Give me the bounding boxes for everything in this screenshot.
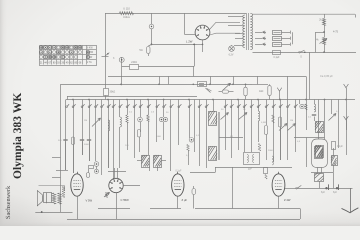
wire bottom rail y219	[67, 219, 300, 221]
oscillator box	[244, 153, 260, 165]
wire interrail v2	[168, 76, 170, 84]
transformer Tr1 core	[246, 13, 248, 50]
svg-text:U 110: U 110	[123, 6, 130, 10]
arrow to chassis x346 mid	[344, 116, 349, 120]
wire tube anode to transformer	[210, 22, 241, 29]
title Olympia 383 WK (rotated left margin)	[13, 93, 23, 179]
wire link y177	[52, 177, 61, 179]
svg-text:5 LW: 5 LW	[87, 57, 93, 59]
cap C1	[63, 139, 67, 141]
wire interrail v3	[193, 66, 195, 76]
comp above V1	[89, 166, 94, 169]
cap C8 electrolytic	[325, 187, 327, 189]
svg-text:8μF: 8μF	[333, 192, 338, 194]
potentiometer P1 on x324	[323, 38, 326, 45]
wire y137 link	[294, 137, 325, 139]
svg-text:240Ω: 240Ω	[131, 61, 137, 64]
band switch contacts row	[66, 106, 68, 108]
ground symbol	[342, 208, 359, 213]
speaker LS horn	[37, 191, 43, 206]
wire top mains rail	[105, 13, 246, 15]
bus switch rail y96.2	[67, 96, 197, 98]
svg-text:30kΩ: 30kΩ	[110, 91, 116, 94]
bus chassis rail y99.5	[66, 99, 355, 101]
oval R12	[264, 126, 267, 135]
varcap arrow h1	[279, 124, 287, 131]
resistor R4 oval	[269, 84, 271, 85]
wire drop x309 from mains rail	[309, 52, 311, 99]
cap C7 box	[332, 142, 336, 150]
coil near V4	[272, 156, 274, 165]
bus AVC rail y85	[61, 84, 253, 86]
speaker frame top	[39, 184, 65, 186]
wire link y170 left	[56, 170, 68, 172]
wire Tr1 primary tap 5	[234, 45, 243, 47]
oval R15 x280	[278, 117, 281, 127]
fuse Si on drop x151	[151, 13, 153, 24]
wire mid rail b	[150, 208, 181, 210]
svg-text:0,5M: 0,5M	[261, 122, 266, 124]
speaker transformer w1	[52, 193, 56, 204]
varres below V2	[105, 193, 108, 198]
zigzag R14 x273	[272, 115, 275, 123]
svg-text:2000: 2000	[268, 150, 274, 152]
wire drop x194	[194, 44, 196, 66]
varcap arrow r	[329, 114, 337, 121]
coil L3	[314, 104, 316, 112]
wire HT drop x324	[324, 14, 326, 18]
svg-text:5Ω: 5Ω	[139, 49, 142, 52]
wire to ground	[350, 188, 352, 212]
wire Tr1 primary tap 2	[228, 25, 243, 27]
wire link y158	[52, 157, 61, 159]
resistor R6 oval mid	[245, 84, 247, 87]
cap C9 electrolytic	[336, 187, 338, 189]
wire interrail v4	[210, 76, 212, 84]
resistor R1 oval (148,50)	[148, 44, 151, 46]
speaker magnet	[44, 193, 52, 203]
zig R13	[258, 144, 261, 152]
wire choke to field	[317, 168, 319, 174]
svg-text:Ca 0,05 μF: Ca 0,05 μF	[320, 74, 333, 78]
IF transformer IFT3 bottom	[315, 147, 323, 159]
heater winding row 3	[255, 44, 262, 46]
wire field to rail	[319, 181, 321, 188]
lamp La dial light	[229, 46, 235, 52]
wire Tr1 sec top to HT rail	[252, 13, 355, 15]
heater winding row 1	[255, 32, 262, 34]
varcap arrow g1	[221, 113, 229, 120]
choke taps	[311, 152, 313, 156]
wire V2 top	[114, 168, 116, 179]
svg-text:8μF: 8μF	[321, 192, 326, 194]
svg-text:6,3V: 6,3V	[229, 55, 234, 57]
coil L2	[258, 111, 260, 121]
svg-text:Urdox: Urdox	[123, 15, 131, 19]
wire left drop from top rail	[105, 13, 107, 99]
svg-text:1M: 1M	[290, 120, 293, 122]
wire rail y76	[108, 76, 306, 78]
wire Tr1 primary tap 3	[235, 33, 243, 35]
resistor R10 zig	[147, 115, 150, 122]
heater winding row 2	[255, 38, 262, 40]
tube V1 envelope	[71, 174, 83, 196]
wire interrail v1	[159, 76, 161, 84]
wire Tr1 primary tap 4	[235, 38, 243, 40]
wire mid rail c	[195, 208, 300, 210]
fuse Si symbol	[149, 24, 154, 29]
junction dots on chassis bus	[72, 99, 74, 101]
wire rail1 right stub	[252, 84, 268, 86]
left scan edge shading	[0, 0, 7, 226]
wire row y66	[122, 66, 195, 68]
wires vertical drops from chassis bus	[60, 100, 62, 213]
trimmer T1	[94, 162, 99, 167]
svg-text:μμF: μμF	[248, 168, 253, 171]
resistor R3 on x324	[323, 19, 326, 26]
band switch table S1	[40, 46, 97, 66]
svg-text:4-75: 4-75	[333, 31, 339, 34]
switch contact gap	[299, 51, 301, 53]
coil L1	[108, 120, 110, 131]
resistor R-Urdox (zigzag on top rail)	[120, 12, 134, 15]
wire V2 right	[123, 185, 140, 187]
cap C4	[87, 139, 91, 141]
wire heater row y44	[152, 44, 198, 46]
wire tube bottom drop	[202, 40, 204, 44]
coil L1b	[120, 117, 122, 127]
transformer Tr1 secondary winding	[250, 14, 252, 50]
wire x324 mid	[324, 26, 326, 38]
varcap arrow h2	[288, 124, 296, 131]
wire bracket y32	[316, 32, 325, 34]
choke capsule outline	[312, 139, 328, 168]
wire bracket drop x315	[315, 32, 317, 52]
wire into tube grid	[184, 34, 195, 36]
junction dots on AVC rail	[120, 83, 122, 85]
svg-text:L 2W: L 2W	[186, 40, 193, 44]
wire link y171 mid	[108, 171, 126, 173]
switch S2 on bottom rail	[273, 51, 281, 55]
tube V2 envelope	[109, 178, 123, 192]
wire mid rail a	[98, 208, 130, 210]
svg-text:1kΩ: 1kΩ	[259, 90, 264, 93]
svg-text:V 5W: V 5W	[86, 199, 93, 203]
IF transformer IFT2 top	[209, 112, 217, 126]
svg-text:6 KW: 6 KW	[87, 47, 93, 49]
cap C6 twin	[159, 117, 163, 121]
varcap arrow antenna	[92, 118, 101, 127]
svg-text:5000: 5000	[156, 136, 162, 138]
IFT1 wires	[137, 160, 142, 162]
svg-text:Z 4W: Z 4W	[284, 198, 291, 202]
wire HT rail y187	[298, 188, 353, 190]
arrow to chassis x346	[346, 88, 348, 100]
comp right of V3 oval	[192, 189, 196, 195]
trimmer+zig right	[300, 104, 304, 108]
zig R11	[187, 145, 190, 152]
field coil	[62, 187, 65, 198]
oval R9	[137, 130, 140, 138]
resistor R7 oval	[71, 137, 74, 145]
IFT2 core	[218, 112, 220, 160]
resistor R8 zig	[126, 115, 129, 123]
wire drop V4	[278, 196, 280, 208]
box component on rail1	[198, 82, 207, 87]
switch contact on x105	[102, 56, 109, 58]
wire interrail v5	[233, 76, 235, 84]
svg-text:0,1μF: 0,1μF	[274, 57, 281, 59]
comp right of V1	[87, 173, 90, 178]
wire x184 drop	[184, 13, 186, 34]
wire x324 to bottom rail	[324, 45, 326, 53]
wire V4 right out	[285, 188, 298, 190]
transformer Tr1 primary winding	[243, 15, 245, 48]
svg-text:C 55W: C 55W	[121, 198, 130, 202]
field winding hatched	[315, 174, 324, 182]
speaker transformer w2	[58, 193, 62, 204]
arrow symbol x279.5	[277, 88, 282, 92]
varcap arrow on rail1	[223, 83, 231, 90]
choke winding hatched	[316, 146, 324, 158]
speaker bottom wire	[35, 212, 72, 214]
title Sachsenwerk (rotated left margin)	[6, 186, 10, 219]
tube V6 L2W envelope	[195, 25, 210, 40]
junction dot	[151, 44, 153, 46]
zigzag below box	[206, 88, 211, 93]
IF transformer IFT3 top	[316, 122, 324, 133]
wire box mid vertical x287	[287, 76, 289, 99]
trimmer T3	[138, 117, 143, 122]
wire AF link y167	[215, 167, 292, 169]
wire drop V3	[177, 196, 179, 208]
wire mains bottom rail y52	[253, 52, 357, 54]
wire box left vertical x257	[257, 76, 259, 84]
wire filament vertical	[292, 32, 294, 44]
cap capsule on wire y91.6	[219, 91, 223, 93]
IF transformer IFT2 bottom	[209, 147, 217, 161]
wire osc link y137	[219, 137, 243, 139]
tube V4 envelope	[272, 174, 285, 196]
tube V3 envelope	[172, 174, 184, 196]
svg-text:0 MW: 0 MW	[87, 52, 94, 54]
wire box right vertical x306	[306, 76, 308, 99]
varcap arrow g2	[239, 113, 248, 120]
wire drop x121 to bus	[121, 66, 123, 85]
coil L4 hatch	[332, 156, 338, 166]
IF transformer IFT1a	[142, 156, 150, 168]
junction dot	[193, 44, 195, 46]
svg-text:2M: 2M	[84, 120, 87, 122]
resistor R2 box on y66	[130, 65, 139, 70]
wire drop x202 down	[202, 44, 204, 52]
svg-text:0,1μF: 0,1μF	[337, 146, 344, 148]
svg-text:0,1μF: 0,1μF	[176, 171, 183, 173]
wire right end drop	[300, 209, 302, 220]
wire bus start drop	[60, 84, 62, 99]
wire drop V2 to rails	[116, 193, 118, 219]
trimmer T2	[94, 169, 98, 173]
trimmer T4	[189, 138, 194, 143]
svg-text:5000: 5000	[84, 144, 90, 146]
comp left of V4	[264, 168, 268, 174]
wire Tr1 primary tap 1	[228, 16, 243, 18]
wire tube cathode right	[210, 33, 240, 35]
cap C3	[80, 139, 84, 141]
trimmer C-a (121,60)	[121, 57, 123, 66]
svg-text:Z μF: Z μF	[182, 198, 188, 202]
bottom scan edge shading	[0, 212, 360, 226]
svg-text:2 TA: 2 TA	[87, 61, 92, 64]
wire drop V1	[77, 196, 79, 219]
